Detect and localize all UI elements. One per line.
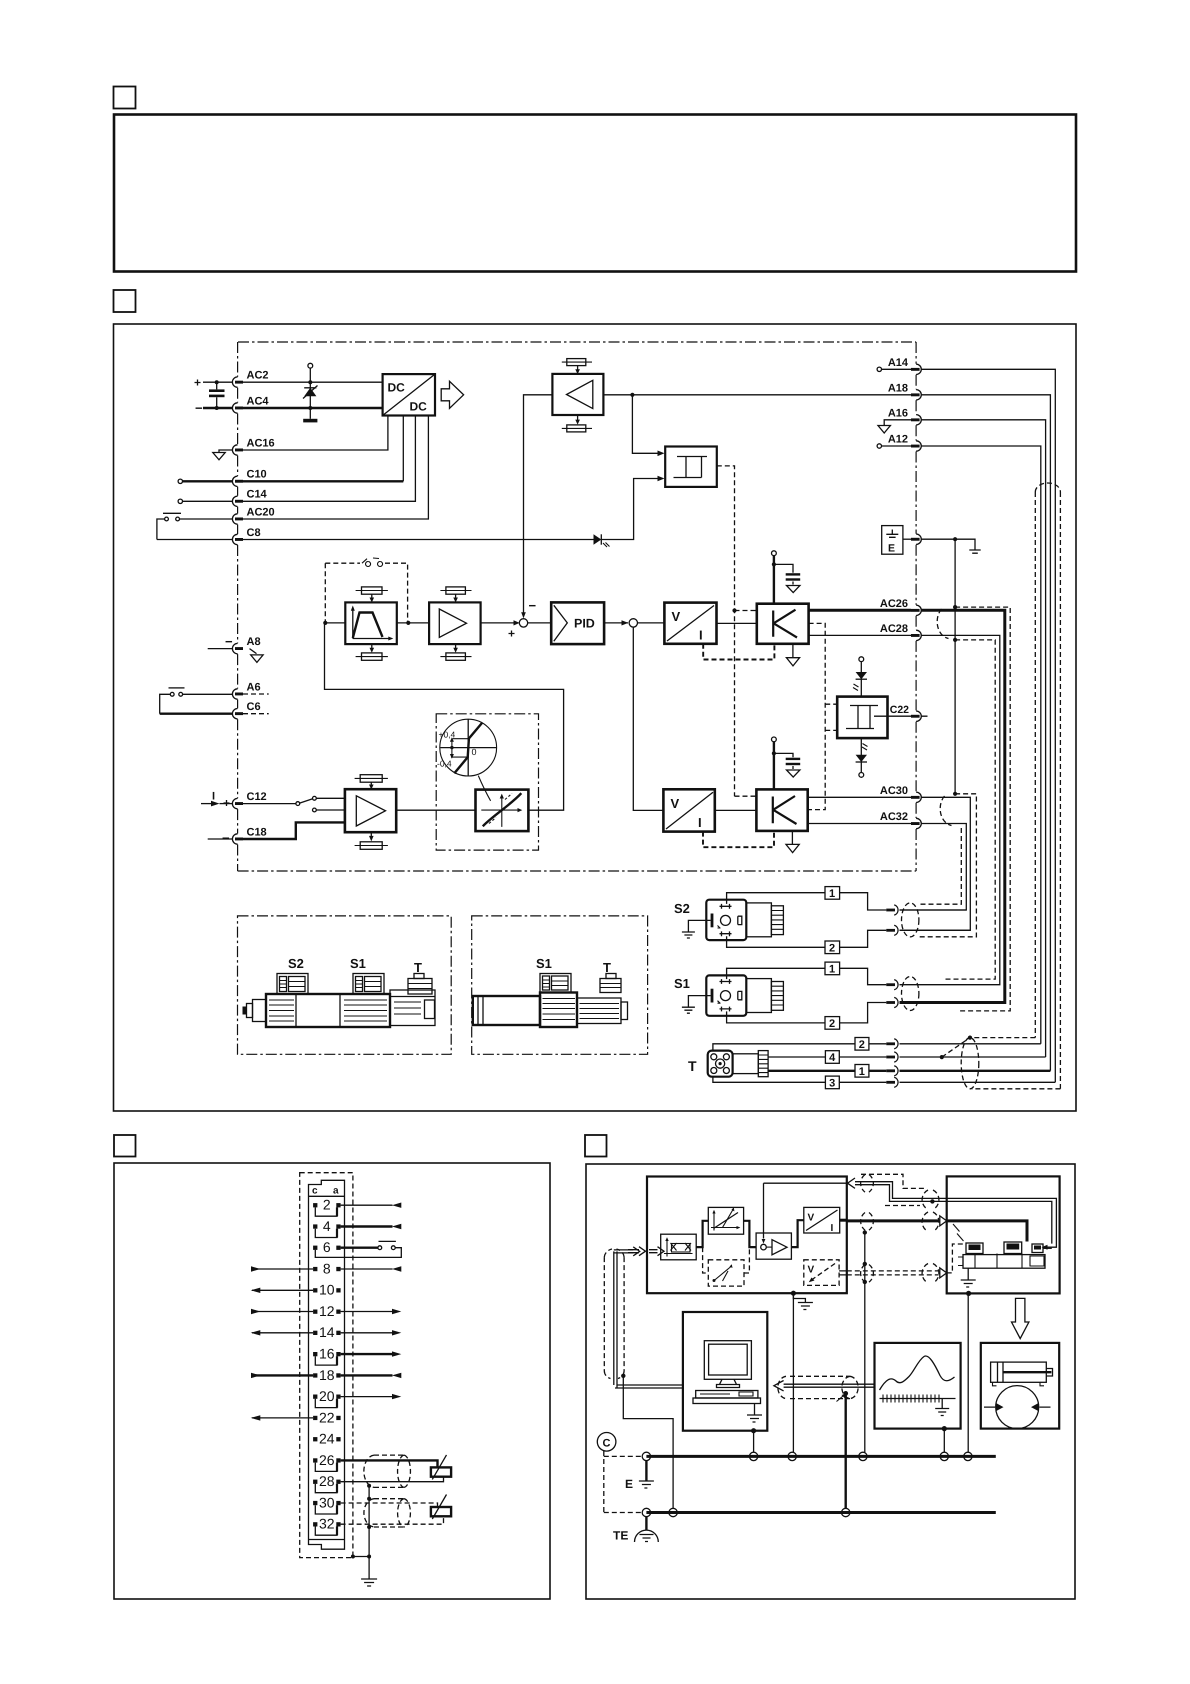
section marker checkbox 2	[114, 290, 136, 312]
serial cable shield	[778, 1376, 858, 1398]
shield arcs at valve edge	[922, 1190, 939, 1210]
wire AC32 external	[900, 824, 967, 911]
pin 22 output line	[252, 1417, 313, 1419]
TE ground	[645, 1517, 647, 1530]
pin 4 bridge link	[315, 1229, 337, 1238]
pin row 18	[313, 1373, 317, 1377]
wire into ramp	[325, 622, 345, 624]
oscilloscope time ruler	[880, 1398, 956, 1400]
valve internal ground	[967, 1268, 969, 1279]
bold command cable to valve	[847, 1219, 939, 1222]
test point above K2	[772, 737, 777, 742]
switch at A6/C6	[169, 687, 185, 689]
terminal tag 1	[825, 887, 840, 900]
S2 ground	[688, 920, 710, 931]
wire amplifier to summing junction	[481, 622, 514, 624]
dashed watchdog output to solenoid drivers	[717, 466, 757, 796]
pin 30 bridge link	[315, 1505, 337, 1514]
T wire pin 2	[713, 1044, 855, 1051]
svg-text:24: 24	[319, 1431, 335, 1447]
svg-text:TE: TE	[613, 1529, 628, 1543]
S2 wire pin 2	[727, 936, 825, 947]
pin row 12	[313, 1310, 317, 1314]
svg-text:1: 1	[829, 888, 835, 900]
oscilloscope ground	[935, 1399, 949, 1416]
pin row 6	[313, 1246, 317, 1250]
zoom circle deadband detail	[440, 719, 497, 776]
svg-text:18: 18	[319, 1367, 335, 1383]
capacitor C0 across supply	[209, 389, 225, 392]
S2 socket 1	[886, 909, 895, 912]
pin row 30	[313, 1501, 317, 1505]
terminal A16	[916, 415, 921, 425]
terminal tag 1	[855, 1065, 869, 1078]
T wire pin 3	[713, 1077, 826, 1083]
svg-text:A18: A18	[888, 382, 908, 394]
wire AC28 external	[900, 635, 1000, 984]
svg-text:AC2: AC2	[247, 370, 269, 382]
wire amplifier to characteristic block	[396, 809, 475, 811]
wire summing 2 to V/I converters	[633, 623, 664, 811]
diode below C22	[860, 738, 862, 772]
svg-text:8: 8	[323, 1260, 331, 1276]
svg-text:AC16: AC16	[247, 437, 275, 449]
S1 cable shield ellipse	[902, 977, 919, 1011]
input amplifier U10	[345, 789, 396, 832]
potentiometer below U10	[360, 842, 382, 850]
C22 pressure-switch comparator U8	[837, 697, 887, 739]
pin 26 bridge link	[315, 1463, 337, 1472]
card boundary dash-dot outline	[238, 342, 917, 871]
wire PC to PE bar	[751, 1428, 756, 1433]
pin row 14	[313, 1331, 317, 1335]
T wire pin 1	[768, 1070, 855, 1072]
wire AC32 from K2	[808, 823, 911, 825]
svg-text:T: T	[603, 960, 611, 975]
S2 socket 2	[886, 929, 895, 932]
wire AC30 external	[900, 797, 971, 930]
terminal C6	[232, 709, 237, 719]
svg-text:C: C	[603, 1438, 611, 1450]
terminal C18	[232, 834, 237, 844]
shield arcs at amplifier edge	[861, 1175, 874, 1193]
pin 30 dashed wire to solenoid 2	[341, 1503, 438, 1507]
pin row 4	[313, 1224, 317, 1228]
connector dashed outline	[300, 1173, 353, 1558]
svg-text:−: −	[222, 831, 230, 846]
feedback line into summing	[763, 1183, 765, 1238]
svg-text:S2: S2	[674, 901, 690, 916]
wire A12 external	[921, 446, 1041, 1044]
valve A sensor T	[414, 974, 424, 979]
valve B ribbed mid section	[540, 993, 577, 1028]
V/I block	[804, 1207, 840, 1233]
shield drain to TE	[621, 1374, 625, 1378]
pin row 22	[313, 1416, 317, 1420]
section marker checkbox 1	[114, 87, 136, 109]
PC command cable shield	[604, 1249, 624, 1379]
pin 4 supply line bold	[341, 1225, 393, 1227]
wire C18 to input amplifier	[243, 822, 345, 839]
pin row 32	[313, 1522, 317, 1526]
svg-text:AC32: AC32	[880, 811, 908, 823]
T transducer plug	[708, 1051, 733, 1077]
DC/DC converter U1	[383, 374, 435, 415]
bold signal path input to char to summing	[696, 1221, 756, 1247]
watchdog comparator U3	[665, 447, 717, 487]
connector body outline	[309, 1180, 345, 1549]
ground symbol section 3	[361, 1557, 377, 1587]
section marker checkbox 4	[585, 1135, 607, 1157]
pin 8 lines	[252, 1268, 313, 1270]
svg-text:AC28: AC28	[880, 623, 908, 635]
svg-text:6: 6	[323, 1239, 331, 1255]
svg-text:26: 26	[319, 1452, 335, 1468]
svg-text:22: 22	[319, 1409, 335, 1425]
valve A solenoid connector S1	[353, 974, 384, 995]
hydraulic motor	[996, 1386, 1039, 1429]
terminal A6	[232, 689, 237, 699]
S1 ground	[688, 996, 710, 1007]
monitor double output	[839, 1271, 847, 1275]
valve example enclosure B	[472, 916, 648, 1054]
dashed shield jumpers	[861, 1174, 926, 1205]
svg-text:S1: S1	[674, 976, 690, 991]
dashed stubs A6 C6	[243, 694, 269, 714]
terminal E	[916, 534, 921, 544]
dashed shield branch to S2 cable upper	[919, 828, 962, 904]
pin row 8	[313, 1267, 317, 1271]
valve A right sensor housing	[390, 990, 435, 1026]
shield ellipse on AC26/28 pair	[937, 609, 948, 639]
terminal tag 4	[825, 1051, 839, 1064]
capacitor at K2	[774, 753, 793, 769]
big hollow arrow valve to cylinder	[1012, 1298, 1029, 1338]
svg-text:A14: A14	[888, 357, 909, 369]
pin 20 bridge link	[315, 1399, 337, 1408]
S1 wire pin 2	[727, 1011, 825, 1023]
dashed shield branch to S2 cable lower	[919, 794, 977, 937]
E terminal external wire and ground	[921, 539, 975, 549]
test point at A14	[877, 367, 881, 371]
svg-text:A6: A6	[247, 681, 261, 693]
pin 20 output line	[341, 1396, 393, 1398]
svg-text:S2: S2	[288, 956, 304, 971]
wire ramp to amplifier	[397, 622, 429, 624]
section 2 block-diagram frame	[114, 324, 1077, 1111]
svg-text:A8: A8	[247, 636, 261, 648]
terminal tag 1	[825, 962, 840, 975]
characteristic curve block U11	[476, 790, 529, 832]
terminal C22	[916, 711, 921, 721]
valve B solenoid connector S1	[540, 974, 571, 993]
wire AC4 internal	[243, 407, 383, 409]
PC box	[683, 1312, 767, 1431]
output driver K1	[757, 604, 809, 644]
section 3 pin-assignment frame	[114, 1163, 550, 1599]
capacitor at K1	[774, 564, 793, 584]
dashed shield branch to S1 cable upper	[945, 640, 995, 979]
shield ellipse on AC30/32 pair	[940, 796, 951, 826]
svg-text:C14: C14	[247, 489, 268, 501]
C label circle	[597, 1433, 616, 1452]
PC monitor	[704, 1341, 751, 1380]
terminal C14	[232, 496, 237, 506]
svg-text:-0,4: -0,4	[437, 759, 452, 769]
ground symbol at AC16	[213, 450, 233, 460]
wire C8 internal to watchdog	[243, 479, 658, 540]
pin 12 lines	[252, 1311, 313, 1313]
S1 solenoid plug	[706, 975, 746, 1015]
terminal A12	[916, 441, 921, 451]
potentiometer above ramp	[362, 587, 383, 594]
svg-text:S1: S1	[536, 956, 552, 971]
wire AC2 external	[203, 381, 232, 383]
ramp generator block U4	[345, 602, 397, 644]
wire A18 external	[921, 395, 1050, 1071]
svg-text:12: 12	[319, 1303, 335, 1319]
monitor dashed pair to valve	[847, 1271, 939, 1275]
characteristic block	[708, 1207, 743, 1234]
svg-text:A12: A12	[888, 434, 908, 446]
S1 wire pin 1	[727, 968, 825, 979]
PID controller U6	[551, 602, 604, 644]
svg-text:C10: C10	[247, 469, 267, 481]
potentiometer below ramp	[362, 653, 383, 660]
potentiometer above U10	[360, 775, 382, 783]
svg-text:PID: PID	[574, 617, 595, 631]
terminal AC26	[916, 605, 921, 615]
V/I converter U7	[664, 603, 716, 644]
test point above K1	[772, 551, 777, 556]
pin row 16	[313, 1352, 317, 1356]
wire AC2 internal	[243, 381, 383, 383]
shield drain bus	[954, 539, 956, 794]
terminal tag 3	[825, 1076, 839, 1089]
valve A left end cap	[253, 1000, 267, 1022]
serial shield drain to TE bar	[843, 1391, 848, 1396]
wire C10 to DC/DC	[178, 479, 182, 483]
svg-text:2: 2	[829, 942, 835, 954]
dash-dot zoom enclosure	[436, 714, 538, 850]
svg-text:DC: DC	[410, 400, 428, 414]
svg-text:c: c	[312, 1186, 318, 1197]
dashed enable K1 to C22 comparator	[808, 623, 838, 809]
pin row 24	[313, 1437, 317, 1441]
svg-text:C18: C18	[247, 826, 267, 838]
pin 18 lines bold	[252, 1374, 313, 1376]
E ground	[645, 1461, 647, 1481]
terminal A8	[232, 643, 237, 653]
svg-text:4: 4	[829, 1052, 836, 1064]
amplifier block U5	[429, 602, 481, 644]
wire amplifier ground to PE bar	[792, 1296, 794, 1453]
T socket 4	[886, 1056, 895, 1059]
section marker checkbox 3	[114, 1135, 136, 1157]
cable screen drain to ground	[353, 1486, 369, 1557]
wire V/I2 to driver K2	[715, 809, 757, 811]
input interface block	[661, 1234, 697, 1260]
S2 plug housing	[746, 903, 771, 937]
svg-text:30: 30	[319, 1494, 335, 1510]
bold V/I output	[840, 1219, 847, 1222]
pin 16 output bold	[341, 1353, 393, 1355]
svg-text:+0,4: +0,4	[439, 730, 456, 740]
svg-text:10: 10	[319, 1282, 335, 1298]
valve B solenoid	[577, 998, 621, 1024]
ground below K2	[791, 831, 793, 844]
svg-text:20: 20	[319, 1388, 335, 1404]
svg-text:V: V	[808, 1213, 815, 1224]
S1 socket 1	[886, 983, 895, 986]
terminal A18	[916, 390, 921, 400]
T socket 2	[886, 1042, 895, 1045]
actuator box	[981, 1343, 1059, 1429]
svg-text:V: V	[671, 796, 680, 811]
solenoid 1	[431, 1467, 451, 1476]
svg-text:C8: C8	[247, 527, 261, 539]
S1 socket 2	[886, 1001, 895, 1004]
diode above C22	[859, 657, 864, 662]
pin row 20	[313, 1395, 317, 1399]
dashed V monitor block	[804, 1260, 839, 1286]
dashed shield branch to S1 cable lower	[955, 607, 1010, 1011]
wire valve to PE bar	[966, 1291, 971, 1296]
terminal tag 2	[855, 1038, 869, 1051]
svg-text:1: 1	[829, 964, 835, 976]
wire A16 external	[921, 420, 1045, 1057]
svg-text:T: T	[414, 960, 422, 975]
svg-text:I: I	[831, 1223, 834, 1234]
svg-text:32: 32	[319, 1516, 335, 1532]
oscilloscope trace	[880, 1356, 955, 1390]
shield tube for transducer cable	[1035, 492, 1060, 1089]
wire A14 external	[921, 369, 1055, 1082]
PC command cable	[614, 1247, 683, 1388]
S1 plug housing	[746, 979, 771, 1013]
S2 wire pin 1	[727, 893, 825, 904]
svg-text:E: E	[625, 1477, 633, 1491]
wire PID to summing 2	[604, 622, 628, 624]
valve A body	[266, 994, 390, 1027]
svg-text:+: +	[508, 627, 515, 641]
solenoid 2	[431, 1507, 451, 1516]
wire C8 external	[157, 539, 233, 541]
S2 solenoid plug	[706, 900, 746, 940]
pin row 10	[313, 1288, 317, 1292]
terminal A14	[916, 364, 921, 374]
summing amplifier block	[756, 1233, 791, 1259]
svg-text:−: −	[529, 598, 537, 613]
ground below K1	[792, 644, 794, 657]
valve B plain cylinder	[473, 996, 540, 1025]
wire V/I to driver K1	[717, 622, 757, 624]
suppressor diode V1 with test point	[308, 363, 313, 368]
svg-text:14: 14	[319, 1324, 335, 1340]
wire summing to V/I	[791, 1220, 803, 1247]
wire AC26 external	[900, 610, 1005, 1002]
push-button switch at AC20	[163, 512, 181, 514]
svg-text:2: 2	[323, 1197, 331, 1213]
T wire pin 4	[768, 1056, 825, 1058]
terminal AC20	[232, 514, 237, 524]
feedback cable pair	[855, 1182, 1056, 1248]
pin 10 output line	[252, 1289, 313, 1291]
potentiometer above U5	[446, 587, 466, 594]
terminal AC16	[232, 445, 237, 455]
shield outline solenoid 2 cable	[364, 1499, 410, 1527]
svg-text:T: T	[688, 1058, 697, 1074]
pin 28 wire from solenoid 1	[341, 1476, 444, 1481]
pin row 28	[313, 1480, 317, 1484]
svg-text:a: a	[333, 1186, 339, 1197]
valve A solenoid connector S2	[277, 974, 308, 995]
T cable shield ellipse	[961, 1038, 979, 1089]
svg-text:C22: C22	[890, 704, 909, 716]
dashed connection frame	[604, 1451, 641, 1513]
amplifier card box	[647, 1177, 847, 1294]
potentiometer below U2	[567, 425, 586, 432]
wire buffer to A18	[603, 394, 911, 396]
wire AC30 from K2	[808, 796, 911, 798]
svg-text:E: E	[888, 543, 895, 555]
svg-text:0: 0	[472, 747, 477, 757]
wire buffer output to summing point	[524, 395, 553, 613]
terminal tag 2	[825, 1017, 840, 1030]
dashed current feedback loop K1	[703, 644, 774, 660]
leader line	[478, 776, 490, 801]
command input hollow arrow external	[628, 1247, 646, 1256]
svg-text:I: I	[212, 791, 215, 803]
pin 32 bridge link	[315, 1527, 337, 1536]
diode V2 in C8 line	[594, 534, 602, 544]
E internal ground box	[882, 526, 903, 555]
pin 16 bridge link	[315, 1356, 337, 1365]
pin 26 wire to solenoid 1	[341, 1460, 438, 1467]
shield outline solenoid 1 cable	[364, 1455, 411, 1487]
svg-text:I: I	[698, 815, 702, 830]
dashed ramp bypass block	[708, 1260, 744, 1286]
ground at A16	[884, 420, 911, 425]
output driver K2	[756, 789, 807, 831]
T socket 3	[886, 1081, 895, 1084]
test point at A12	[877, 444, 881, 448]
wire AC4 external	[203, 407, 232, 409]
svg-text:C6: C6	[247, 701, 261, 713]
svg-text:1: 1	[859, 1066, 865, 1078]
summing junction 1	[519, 619, 527, 627]
svg-text:2: 2	[829, 1018, 835, 1030]
terminal tag 2	[825, 941, 840, 954]
svg-text:V: V	[672, 609, 681, 624]
terminal AC28	[916, 630, 921, 640]
terminal AC4	[232, 403, 237, 413]
T socket 1	[886, 1069, 895, 1072]
svg-text:−: −	[195, 401, 203, 416]
valve example enclosure A	[238, 916, 452, 1054]
dashed cable crossing marks	[953, 1224, 964, 1241]
wire AC28 from K1	[809, 634, 911, 636]
terminal C8	[232, 534, 237, 544]
terminal C12	[232, 798, 237, 808]
input mode switch	[243, 803, 296, 805]
TE busbar	[646, 1511, 995, 1514]
wire AC16 to DC/DC	[243, 416, 388, 451]
svg-text:3: 3	[829, 1078, 835, 1090]
section 4 system-diagram frame	[586, 1164, 1075, 1599]
dashed current feedback loop K2	[703, 831, 774, 847]
pin 14 lines	[252, 1332, 313, 1334]
